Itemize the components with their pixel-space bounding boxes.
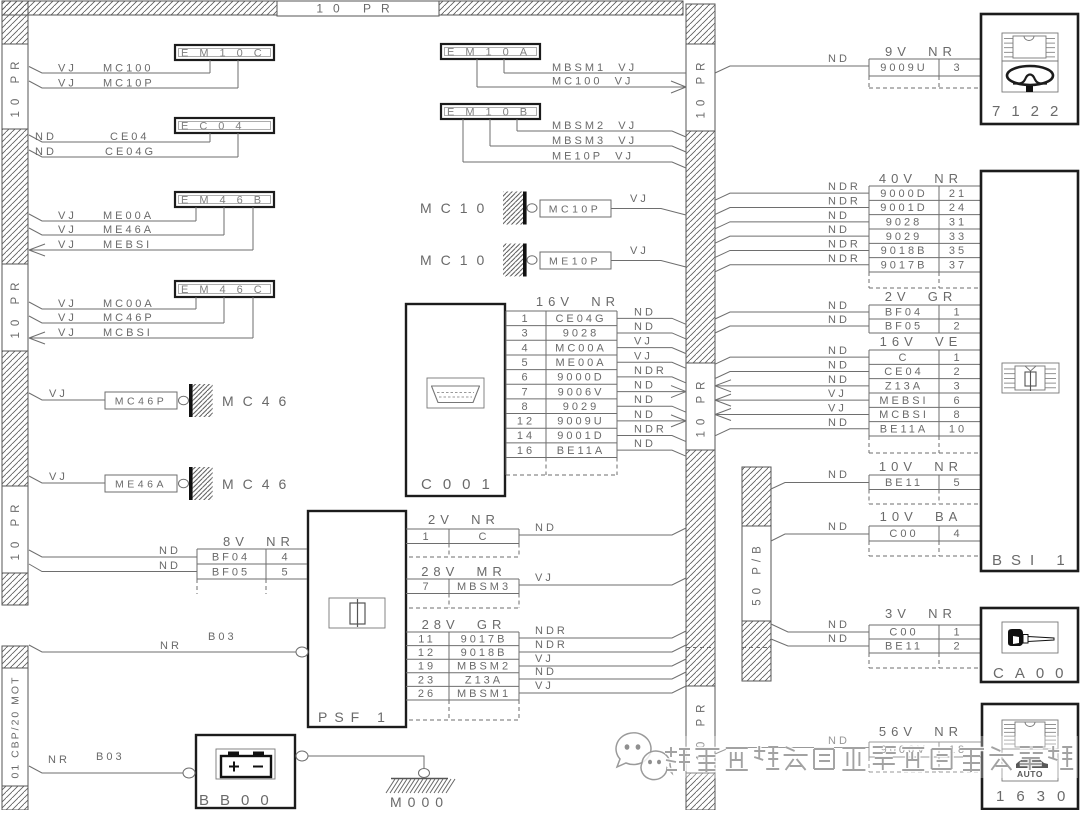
splice MC46 via ME46A [105,467,213,500]
svg-text:ND: ND [634,438,656,450]
svg-text:1: 1 [422,531,431,543]
label NDR (PSF1 pin 11) [535,625,568,637]
svg-text:35: 35 [949,245,967,257]
label 3V NR (BSI side table header) [885,606,957,621]
svg-text:31: 31 [949,217,967,229]
svg-text:ND: ND [159,560,181,572]
svg-text:16: 16 [517,445,535,457]
label 16V NR (C001 table header) [536,294,620,309]
label ND (C00 CA00) [828,619,850,631]
label ND (C001 pin 8) [634,394,656,406]
svg-text:16V VE: 16V VE [880,334,963,349]
wire ND C00 (50 P/B bar to CA00 pin 1) [771,624,869,632]
svg-text:C: C [899,352,910,364]
svg-text:ND: ND [828,314,850,326]
svg-text:MC00A: MC00A [555,342,607,354]
label NDR (C001 pin 14) [634,424,667,436]
label VJ (MEBSI right) [828,388,847,400]
svg-text:10 PR: 10 PR [10,277,22,339]
harness bar segment (central) [686,131,715,363]
svg-text:MC100 VJ: MC100 VJ [552,76,633,88]
wire NDR 9001D (C001 pin 14 to central bar) [617,436,686,442]
wire VJ ME00A (EM46B to left bar) [29,207,196,221]
svg-text:9018B: 9018B [881,245,928,257]
svg-text:VJ: VJ [630,193,649,205]
svg-text:10 PR: 10 PR [696,57,708,119]
svg-text:40V NR: 40V NR [879,171,963,186]
svg-text:28V MR: 28V MR [421,564,507,579]
label NDR (9017B) [828,253,861,265]
label 10 PR (central bar upper) [686,44,715,131]
wire ND 9029 (central bar to BSI1 pin 33) [715,236,869,243]
svg-text:MCBSI: MCBSI [879,409,929,421]
label VJ (MC46P wire) [49,388,68,400]
label 10 PR (top bar) [277,1,439,16]
svg-text:CE04G: CE04G [555,313,606,325]
label ND (Z13A right) [828,374,850,386]
ground M000 [386,769,455,811]
label ND (BE11A right) [828,417,850,429]
label VJ MC100 [58,63,153,75]
svg-text:9009U: 9009U [880,62,927,74]
label 10 PR (left bar second) [2,264,28,351]
fuse box PSF1 [308,511,406,727]
pin table 56V NR [869,742,981,772]
svg-text:23: 23 [418,674,436,686]
harness bar segment (left, motor harness) [2,646,28,668]
svg-text:9029: 9029 [886,231,922,243]
label VJ MC00A [58,298,155,310]
connector EM46B [175,192,274,207]
wire ND C (central bar to BSI1 pin 1) [715,357,869,364]
svg-text:1: 1 [953,352,962,364]
svg-text:M000: M000 [390,794,449,810]
wire NDR 9000D (central bar to BSI1 pin 21) [715,193,869,200]
label MC10 (lower splice) [420,252,493,268]
label 40V NR (BSI side table header) [879,171,963,186]
wire VJ MC00A (C001 pin 4 to central bar) [617,348,686,354]
wire MBSM1 VJ (EM10A to central bar) [504,59,686,73]
svg-text:3: 3 [953,62,962,74]
svg-text:10: 10 [949,424,967,436]
svg-text:10 PR: 10 PR [696,376,708,438]
wire ND BF04 (left bar to PSF1 pin 4) [29,550,197,557]
svg-text:8: 8 [953,409,962,421]
wire ND BE11A (central bar to BSI1 pin 10) [715,429,869,436]
pin table 9V NR [869,59,981,88]
svg-text:MC10P: MC10P [549,204,602,216]
svg-text:VJ: VJ [535,680,554,692]
svg-text:ND: ND [828,633,850,645]
label 2V NR (PSF1 right table header) [428,512,500,527]
svg-text:MC46P: MC46P [115,396,168,408]
wire VJ MBSM1 (PSF1 pin 26 to central bar) [519,686,686,693]
label ND CE04G [35,146,156,158]
label ND (9006V) [828,735,850,747]
svg-text:11: 11 [418,634,435,646]
svg-text:2: 2 [953,321,962,333]
svg-text:3: 3 [521,328,530,340]
harness bar segment (left) [2,573,28,605]
component 1630 (automatic gearbox ECU) [982,704,1078,809]
label ND (C right) [828,345,850,357]
svg-text:1: 1 [953,627,962,639]
connector C001 (diagnostic socket) [406,304,505,496]
pin table C001 [506,311,617,475]
harness bar 10 PR (top horizontal) [2,1,683,15]
wire NR B03 (left bar to battery BB00) [29,766,195,778]
svg-text:VJ: VJ [828,402,847,414]
connector EC04 [175,118,274,133]
svg-text:ND: ND [828,521,850,533]
label VJ (C001 pin 4) [634,336,653,348]
wire VJ MC46P (EM46C to left bar) [29,297,224,323]
svg-text:9001D: 9001D [880,202,927,214]
svg-text:16V NR: 16V NR [536,294,620,309]
label ND (9009U) [828,53,850,65]
battery BB00 [196,735,295,809]
pin table 40V NR [869,186,981,288]
svg-text:4: 4 [281,552,290,564]
wire VJ MBSM2 (PSF1 pin 19 to central bar) [519,659,686,666]
label MC100 VJ [552,76,633,88]
svg-text:9028: 9028 [886,217,922,229]
svg-text:ME46A: ME46A [115,479,167,491]
svg-text:BE11: BE11 [885,641,923,653]
svg-text:4: 4 [953,528,962,540]
label VJ ME46A [58,224,154,236]
label 9V NR (BSI side table header) [885,44,957,59]
svg-text:MC100: MC100 [103,63,153,75]
svg-text:MC10P: MC10P [103,78,155,90]
svg-text:4: 4 [521,342,530,354]
svg-text:10 PR: 10 PR [10,499,22,561]
svg-text:ND: ND [828,53,850,65]
svg-text:28V GR: 28V GR [422,617,507,632]
wire VJ MCBSI (EM46C to left bar, continues to BSI1) [29,297,253,344]
svg-text:50 P/B: 50 P/B [752,541,764,606]
harness bar segment (central bottom hatch) [686,773,715,810]
label MBSM2 VJ [552,120,637,132]
wire ND BE11A (C001 pin 16 to central bar) [617,450,686,456]
svg-text:ND: ND [828,469,850,481]
svg-text:EM46C: EM46C [181,284,273,296]
svg-text:BB00: BB00 [199,792,280,809]
svg-text:NDR: NDR [634,424,667,436]
svg-text:2V NR: 2V NR [428,512,500,527]
label MBSM1 VJ [552,62,637,74]
svg-text:1630: 1630 [996,788,1077,805]
svg-text:7: 7 [521,386,530,398]
svg-text:MC46: MC46 [222,476,295,492]
svg-text:BE11A: BE11A [557,445,605,457]
label VJ (C001 pin 5) [634,350,653,362]
svg-text:21: 21 [949,188,967,200]
label MC10 (upper splice) [420,200,493,216]
svg-text:10 PR: 10 PR [316,2,399,16]
wire VJ MEBSI (EM46B to left bar, continues to BSI1) [29,207,253,256]
svg-text:NDR: NDR [828,238,861,250]
svg-text:9V NR: 9V NR [885,44,957,59]
harness bar segment (left) [2,129,28,264]
wire ND 9028 (C001 pin 3 to central bar) [617,333,686,339]
svg-text:10V BA: 10V BA [880,509,963,524]
svg-text:ND: ND [634,380,656,392]
svg-text:VJ: VJ [535,653,554,665]
wire VJ MBSM3 (PSF1 pin 7 to central bar) [519,578,686,585]
label NDR (C001 pin 6) [634,365,667,377]
wire VJ ME46A (EM46B to left bar) [29,207,224,235]
label 10V NR (BSI side table header) [879,459,963,474]
svg-text:12: 12 [418,647,436,659]
svg-text:ND: ND [35,146,57,158]
label ND (BF05) [159,560,181,572]
svg-text:NDR: NDR [828,253,861,265]
pin table PSF1 (28V GR) [406,632,519,720]
wire ND BE11 (50 P/B bar to BSI1 pin 5) [771,483,869,490]
svg-text:BF05: BF05 [885,321,923,333]
label 56V NR (BSI side table header) [879,724,963,739]
svg-text:NDR: NDR [535,625,568,637]
svg-text:ND: ND [828,619,850,631]
svg-text:NR: NR [48,754,70,766]
svg-text:VJ: VJ [535,572,554,584]
svg-text:3V NR: 3V NR [885,606,957,621]
harness bar 50 P/B bottom hatch [742,621,771,681]
pin table 10V BA [869,526,981,556]
svg-text:1: 1 [953,307,962,319]
label 28V MR (PSF1 right table header) [421,564,507,579]
svg-text:8V NR: 8V NR [223,534,295,549]
svg-text:NDR: NDR [634,365,667,377]
svg-text:14: 14 [517,430,535,442]
wire ND 9028 (central bar to BSI1 pin 31) [715,222,869,229]
wire MBSM3 VJ (EM10B to central bar) [490,119,686,152]
label VJ MCBSI [58,327,153,339]
svg-text:9029: 9029 [563,401,599,413]
wire VJ MC10P (EM10C pin to left bar) [29,60,238,88]
svg-text:C00: C00 [889,627,918,639]
svg-text:7: 7 [422,581,431,593]
label 2V GR (BSI side table header) [885,289,958,304]
svg-text:C: C [479,531,490,543]
watermark overlay (forum logo and text) [612,733,1078,780]
svg-text:NDR: NDR [828,195,861,207]
label NR B03 (battery wire) [48,751,125,766]
svg-text:MCBSI: MCBSI [103,327,153,339]
svg-text:9017B: 9017B [881,260,928,272]
svg-text:12: 12 [517,416,535,428]
connector EM10C [175,45,274,60]
label ND (PSF1 pin 23) [535,666,557,678]
svg-text:MC46: MC46 [222,393,295,409]
label VJ MC10P [58,78,155,90]
svg-text:9018B: 9018B [461,647,508,659]
svg-text:3: 3 [953,381,962,393]
svg-text:ND: ND [828,374,850,386]
label VJ (MCBSI right) [828,402,847,414]
svg-text:VJ: VJ [634,350,653,362]
wire VJ MC100 (EM10C pin to left bar) [29,60,210,73]
svg-text:9009U: 9009U [557,416,604,428]
svg-text:ND: ND [828,359,850,371]
wire NR B03 (left bar to PSF1 supply) [29,645,308,657]
svg-text:Z13A: Z13A [885,381,923,393]
svg-text:9000D: 9000D [557,372,604,384]
wire NDR 9018B (PSF1 pin 12 to central bar) [519,645,686,652]
label 10 PR (central bar middle) [686,363,715,450]
svg-text:ME46A: ME46A [103,224,154,236]
svg-text:2: 2 [953,366,962,378]
svg-text:PSF 1: PSF 1 [318,709,392,725]
wire ND 9009U (C001 pin 12 to central bar) [617,415,686,427]
component CA00 (ignition key switch) [981,608,1078,682]
svg-text:MC10: MC10 [420,252,493,268]
pin table 2V GR [869,305,981,333]
label VJ (MC10P wire) [630,193,649,205]
svg-text:ND: ND [159,545,181,557]
wire NDR 9000D (C001 pin 6 to central bar) [617,377,686,383]
pin table PSF1 (28V MR) [406,579,519,608]
svg-text:MBSM3 VJ: MBSM3 VJ [552,135,637,147]
svg-text:ND: ND [35,131,57,143]
label 10 PR (left bar upper) [2,44,28,129]
svg-text:ND: ND [828,210,850,222]
svg-text:VJ: VJ [58,239,77,251]
wire ND Z13A (central bar to BSI1 pin 3) [715,380,869,392]
label VJ (PSF1 pin 7) [535,572,554,584]
svg-text:10V NR: 10V NR [879,459,963,474]
svg-text:EM46B: EM46B [181,195,272,207]
splice MC10 via MC10P [503,192,611,225]
svg-text:9028: 9028 [563,328,599,340]
ECU BSI1 (body control unit) [981,171,1078,571]
svg-text:B03: B03 [208,631,237,643]
svg-text:ND: ND [535,522,557,534]
svg-text:37: 37 [949,260,967,272]
wire ND Z13A (PSF1 pin 23 to central bar) [519,672,686,679]
label 10V BA (BSI side table header) [880,509,963,524]
svg-text:BF04: BF04 [212,552,250,564]
svg-text:BSI 1: BSI 1 [992,552,1074,569]
label MC46 (upper splice) [222,393,295,409]
svg-text:19: 19 [418,661,436,673]
splice MC46 via MC46P [105,384,213,417]
svg-text:ND: ND [634,321,656,333]
label 16V VE (BSI side table header) [880,334,963,349]
svg-text:MEBSI: MEBSI [879,395,928,407]
svg-text:ND: ND [634,394,656,406]
wire VJ MC00A (EM46C to left bar) [29,297,196,309]
svg-text:VJ: VJ [58,327,77,339]
label ND (C001 pin 1) [634,306,656,318]
svg-text:EC04: EC04 [181,121,253,133]
svg-text:10 PR: 10 PR [10,56,22,118]
svg-text:MC00A: MC00A [103,298,155,310]
wire VJ (MC10P to central bar) [611,209,686,216]
label ND (C00) [828,521,850,533]
label VJ MC46P [58,312,155,324]
label MC46 (lower splice) [222,476,295,492]
connector EM46C [175,281,274,297]
svg-text:MBSM2: MBSM2 [457,661,511,673]
wire NDR 9017B (central bar to BSI1 pin 37) [715,265,869,272]
label ND (BE11) [828,469,850,481]
pin table PSF1 (2V NR) [406,529,519,557]
label 10 PR (left bar third) [2,486,28,573]
wire VJ to splice MC46P [29,393,105,400]
svg-text:NR: NR [160,640,182,652]
svg-text:VJ: VJ [58,210,77,222]
svg-text:ME10P VJ: ME10P VJ [552,151,634,163]
label ND (C001 pin 16) [634,438,656,450]
pin table 16V VE [869,350,981,453]
label NDR (PSF1 pin 12) [535,639,568,651]
svg-text:BE11A: BE11A [880,424,928,436]
svg-text:5: 5 [953,477,962,489]
svg-text:CE04G: CE04G [105,146,156,158]
label NDR (9000D) [828,181,861,193]
svg-text:8: 8 [521,401,530,413]
svg-text:NDR: NDR [535,639,568,651]
label NDR (9001D) [828,195,861,207]
label 28V GR (PSF1 right table header) [422,617,507,632]
svg-text:7122: 7122 [992,103,1069,120]
label ND (BE11 CA00) [828,633,850,645]
svg-text:MBSM3: MBSM3 [457,581,511,593]
connector EM10A [441,44,540,59]
svg-text:CE04: CE04 [110,131,150,143]
svg-text:MC10: MC10 [420,200,493,216]
label VJ (PSF1 pin 26) [535,680,554,692]
svg-text:33: 33 [949,231,967,243]
svg-text:B03: B03 [96,751,125,763]
label ND (CE04 right) [828,359,850,371]
svg-text:BF04: BF04 [885,307,923,319]
wire MBSM2 VJ (EM10B to central bar) [517,119,686,137]
label 10 PR (central bar lower) [686,686,715,773]
wire ND BF04 (central bar to BSI1) [715,312,869,319]
svg-text:BF05: BF05 [212,567,250,579]
svg-text:VJ: VJ [634,336,653,348]
svg-text:MBSM1 VJ: MBSM1 VJ [552,62,637,74]
label ND (C001 pin 3) [634,321,656,333]
svg-text:9017B: 9017B [461,634,508,646]
label 50 P/B [742,526,771,621]
svg-text:MEBSI: MEBSI [103,239,152,251]
label 8V NR (PSF1 left table header) [223,534,295,549]
svg-text:6: 6 [953,395,962,407]
wire VJ MCBSI (central bar to BSI1 pin 8) [715,408,869,420]
svg-text:ME00A: ME00A [103,210,154,222]
wire NDR 9017B (PSF1 pin 11 to central bar) [519,631,686,638]
svg-text:C001: C001 [421,476,501,493]
label VJ (PSF1 pin 19) [535,653,554,665]
svg-text:VJ: VJ [828,388,847,400]
label VJ ME00A [58,210,154,222]
harness bar segment (left) [2,351,28,486]
svg-text:VJ: VJ [58,298,77,310]
wire ME10P VJ (EM10B to central bar) [463,119,686,168]
wire VJ MEBSI (central bar to BSI1 pin 6) [715,394,869,406]
svg-text:ND: ND [634,306,656,318]
pin table 10V NR [869,475,981,504]
harness bar segment (left bottom hatch) [2,786,28,810]
svg-text:VJ: VJ [58,312,77,324]
label 01 CBP/20 MOT (left bar) [2,668,28,786]
label ND (BF04) [159,545,181,557]
svg-text:MC46P: MC46P [103,312,155,324]
